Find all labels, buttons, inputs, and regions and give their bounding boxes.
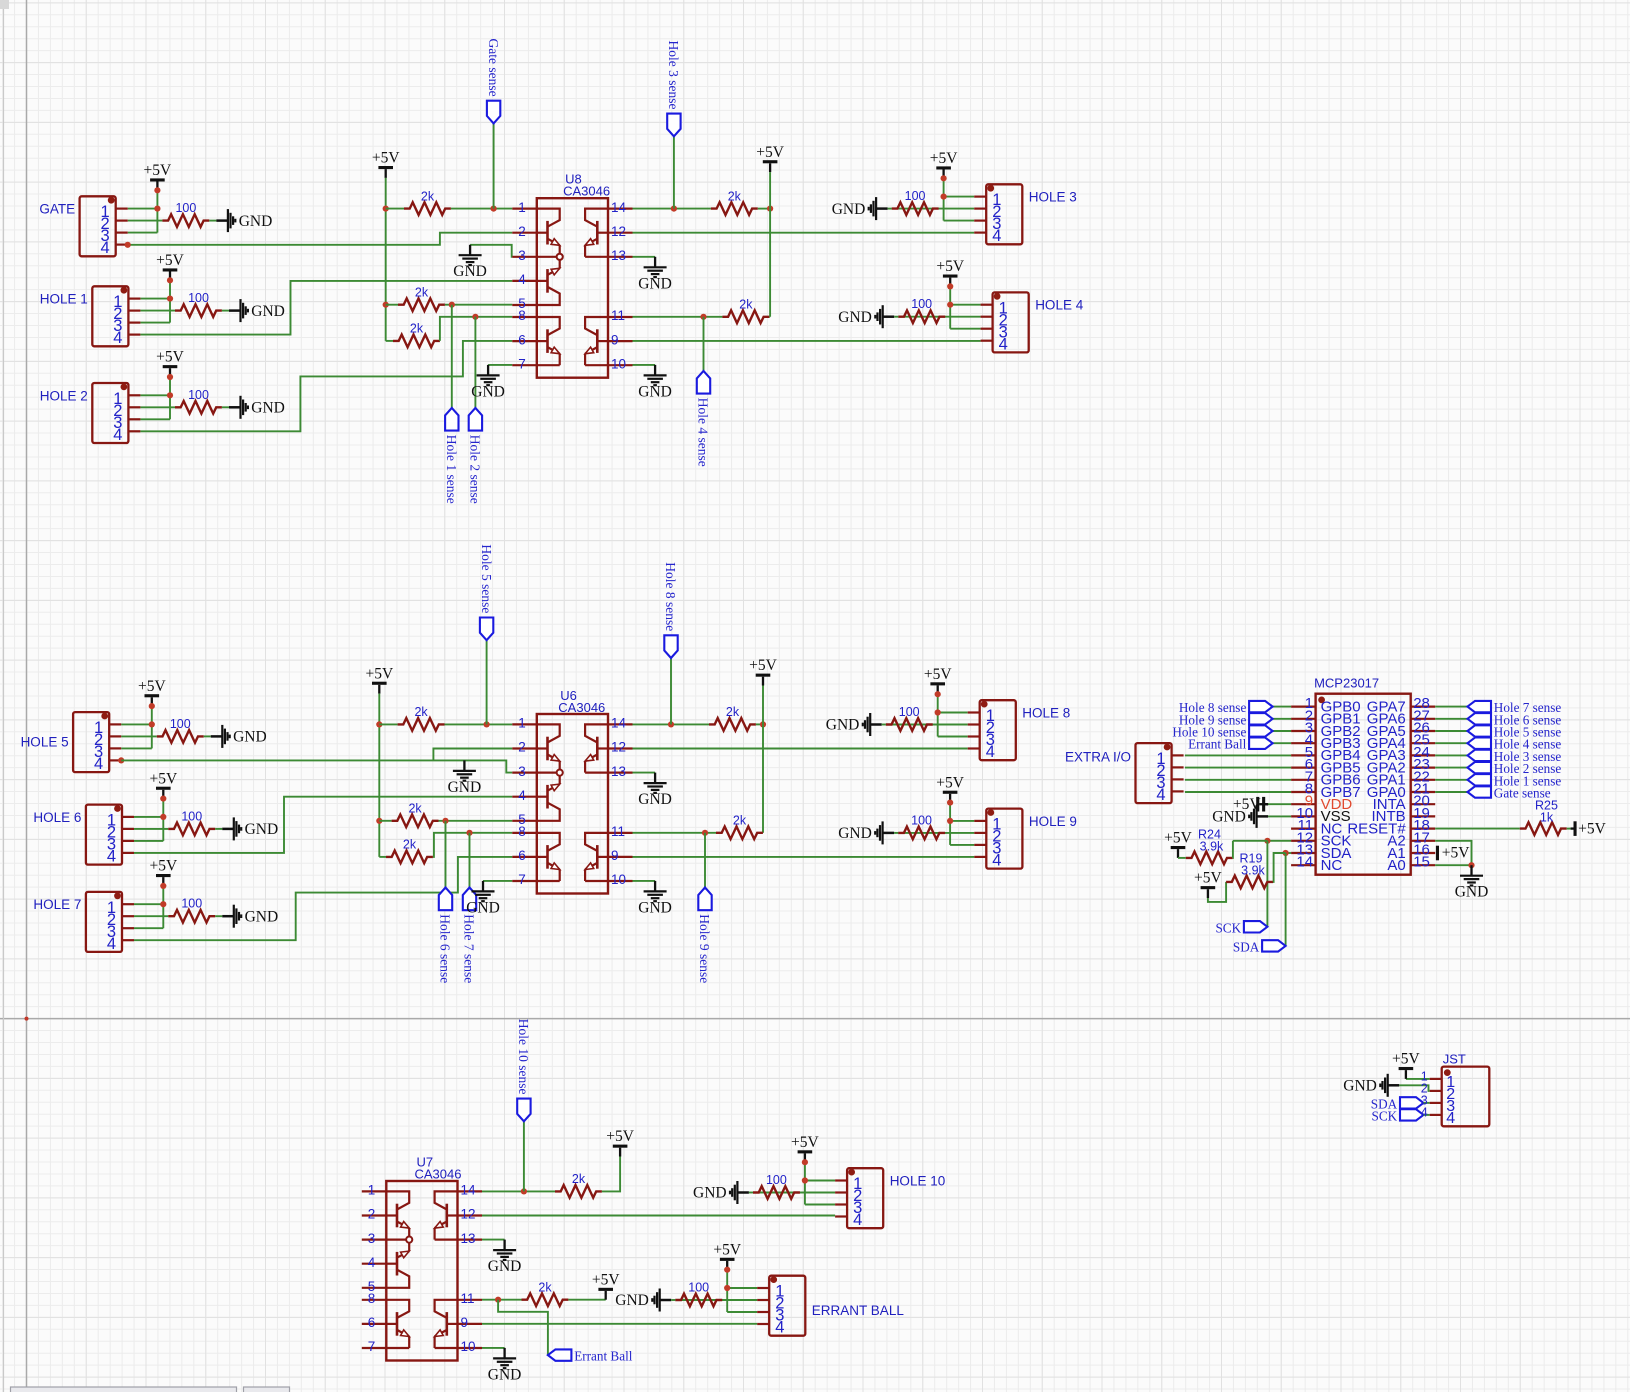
svg-text:SCK: SCK — [1372, 1108, 1398, 1123]
svg-text:GND: GND — [638, 899, 672, 916]
resistor 100 (HOLE 7) — [168, 910, 215, 923]
wire MCP pin 21 to net Gate sense — [1435, 791, 1467, 793]
svg-text:3: 3 — [518, 248, 526, 263]
svg-text:GND: GND — [245, 821, 279, 838]
junction dot +5V attach (HOLE 10) — [802, 1159, 808, 1165]
svg-text:GND: GND — [1212, 809, 1246, 826]
svg-text:GND: GND — [838, 309, 872, 326]
ground flag (JST pin2) — [1388, 1084, 1400, 1087]
U6 pin 7 — [512, 880, 537, 882]
connector HOLE 8 — [980, 700, 1016, 760]
U7 transistor Q4 (pins 14,12,13) — [445, 1204, 448, 1228]
wire MCP pin 23 to net Hole 2 sense — [1435, 767, 1467, 769]
wire R24 to SCK net — [1232, 841, 1234, 858]
svg-text:+5V: +5V — [1392, 1051, 1420, 1068]
junction dot Hole 7 sense — [466, 830, 472, 836]
MCP23017 pin 8 (GPB7) — [1291, 791, 1316, 793]
wire resistor to HOLE 10 pin2 — [753, 1192, 835, 1194]
junction dot pin1 (HOLE 8) — [935, 709, 941, 715]
sheet border vertical line — [26, 0, 28, 1392]
svg-text:GND: GND — [832, 201, 866, 218]
MCP23017 pin 5 (GPB4) — [1291, 754, 1316, 756]
svg-text:GND: GND — [233, 729, 267, 746]
wire 2k to U8 pin1 — [451, 208, 512, 210]
U8 pin 13 — [608, 256, 633, 258]
junction dot +5V right rail (U6) — [760, 721, 766, 727]
U8 pin 1 — [512, 208, 537, 210]
wire +5V right rail — [769, 172, 771, 209]
power flag +5V (U7 pin14) — [619, 1148, 621, 1157]
junction dot +5V attach (HOLE 8) — [935, 691, 941, 697]
U7 pin 3 — [362, 1238, 387, 1240]
ground flag (U6 pin7) — [482, 881, 484, 892]
ground flag (HOLE 6) — [222, 828, 234, 831]
U7 pin 4 — [362, 1263, 387, 1265]
connector EXTRA I/O — [1136, 743, 1172, 803]
wire resistor to GND (HOLE 1) — [222, 310, 229, 312]
svg-text:4: 4 — [113, 426, 122, 444]
svg-text:+5V: +5V — [791, 1134, 819, 1151]
svg-text:HOLE 6: HOLE 6 — [33, 810, 81, 825]
wire MCP pin 24 to net Hole 3 sense — [1435, 754, 1467, 756]
U7 transistor Q3 (pins 8,6,7) — [396, 1312, 399, 1336]
wire U8 pin10 to GND — [633, 364, 656, 366]
wire U7 pin13 to GND — [482, 1239, 505, 1241]
svg-text:2k: 2k — [408, 802, 422, 816]
junction dot Hole 5 sense — [484, 721, 490, 727]
svg-text:GND: GND — [826, 717, 860, 734]
resistor 2k (U6 pin11 pullup) — [716, 827, 763, 840]
svg-text:100: 100 — [170, 717, 191, 731]
wire net Hole 8 sense to MCP pin 1 — [1273, 706, 1292, 708]
U7 pin 7 — [362, 1347, 387, 1349]
svg-text:GATE: GATE — [39, 202, 75, 217]
U8 pin 2 — [512, 232, 537, 234]
net flag Hole 6 sense (GPA side) — [1468, 713, 1492, 724]
junction dot +5V attach (HOLE 1) — [167, 277, 173, 283]
wire net Hole 9 sense to MCP pin 2 — [1273, 718, 1292, 720]
U8 pin 11 — [608, 316, 633, 318]
MCP23017 pin 23 (GPA2) — [1411, 766, 1436, 768]
+5V net wire down to pin3 (HOLE 9) — [949, 803, 951, 845]
U6 pin 13 — [608, 771, 633, 773]
svg-text:4: 4 — [999, 335, 1008, 353]
junction dot rail/pin1 row — [376, 721, 382, 727]
MCP23017 pin 17 (A2) — [1411, 840, 1436, 842]
junction dot HOLE 5 pin4 stub — [118, 757, 124, 763]
svg-text:2: 2 — [518, 740, 526, 755]
svg-text:12: 12 — [611, 740, 626, 755]
junction dot rail/pin5 row — [376, 818, 382, 824]
U8 transistor Q2 (pins 5,4,3) — [546, 269, 549, 293]
svg-text:4: 4 — [775, 1319, 784, 1337]
net flag Hole 10 sense — [523, 1121, 525, 1191]
U8 pin 14 — [608, 208, 633, 210]
resistor R25 1k — [1520, 822, 1567, 835]
svg-text:+5V: +5V — [936, 258, 964, 275]
ground flag (U6 pin10) — [654, 881, 656, 892]
U6 pin 14 — [608, 723, 633, 725]
ground flag (U8 pin13) — [654, 257, 656, 268]
svg-text:A0: A0 — [1387, 857, 1405, 874]
resistor 100 (HOLE 4) — [898, 310, 945, 323]
power flag +5V (U8 right rail) — [769, 163, 771, 172]
svg-text:Hole 1 sense: Hole 1 sense — [444, 435, 459, 504]
wire HOLE 6 pin1 to +5V column — [134, 816, 163, 818]
wire resistor to GND (HOLE 7) — [215, 915, 222, 917]
MCP23017 pin 9 (VDD) — [1291, 803, 1316, 805]
svg-text:7: 7 — [518, 356, 526, 371]
wire 2k to +5V column — [758, 208, 770, 210]
net flag Gate sense — [493, 123, 495, 208]
resistor 2k (U8 pin11 pullup) — [722, 310, 769, 323]
junction dot +5V attach (HOLE 5) — [149, 703, 155, 709]
connector HOLE 9 — [986, 809, 1022, 869]
wire U7 pin11 to 2k — [482, 1299, 522, 1301]
svg-text:SCK: SCK — [1215, 920, 1241, 935]
wire 2k up to U6 pin8 — [433, 833, 512, 857]
connector HOLE 3 — [986, 184, 1022, 244]
IC U8 CA3046 body — [537, 198, 608, 378]
wire HOLE 7 pin3 — [134, 927, 163, 929]
JST pin 4 — [1430, 1114, 1442, 1116]
ground flag (A0/A2) — [1470, 865, 1472, 876]
MCP23017 pin 22 (GPA1) — [1411, 779, 1436, 781]
ground flag (U7 pin13) — [503, 1240, 505, 1251]
resistor 2k (U7 pin14 pullup) — [555, 1185, 602, 1198]
U6 transistor Q1 (pins 1,2,3) — [546, 737, 549, 761]
U8 pin 9 — [608, 340, 633, 342]
wire Errant Ball net down to flag — [498, 1300, 548, 1355]
junction dot +5V attach (HOLE 3) — [941, 175, 947, 181]
resistor 100 (HOLE 1) — [175, 304, 222, 317]
svg-text:3: 3 — [518, 764, 526, 779]
connector ERRANT BALL — [769, 1276, 805, 1336]
wire EXTRA I/O pin 1 to MCP pin 5 — [1185, 754, 1291, 756]
svg-text:+5V: +5V — [156, 252, 184, 269]
svg-text:100: 100 — [911, 297, 932, 311]
svg-text:4: 4 — [368, 1255, 376, 1270]
net flag Errant Ball — [548, 1349, 572, 1360]
ground flag (HOLE 2) — [229, 406, 241, 409]
power flag +5V (HOLE 9) — [949, 794, 951, 803]
+5V net wire down to pin3 — [162, 886, 164, 928]
connector HOLE 1 — [92, 286, 128, 346]
net flag SCK — [1244, 921, 1268, 932]
U6 pin 1 — [512, 723, 537, 725]
wire MCP pin 28 to net Hole 7 sense — [1435, 706, 1467, 708]
MCP23017 pin 26 (GPA5) — [1411, 730, 1436, 732]
junction dot +5V attach (HOLE 2) — [167, 374, 173, 380]
MCP23017 pin 28 (GPA7) — [1411, 705, 1436, 707]
svg-text:Hole 2 sense: Hole 2 sense — [468, 435, 483, 504]
connector HOLE 10 — [847, 1168, 883, 1228]
svg-text:4: 4 — [992, 852, 1001, 870]
wire SDA net down to flag — [1285, 853, 1287, 946]
+5V net wire down to pin3 (ERRANT BALL) — [726, 1270, 728, 1312]
U8 pin 6 — [512, 340, 537, 342]
net flag Hole 9 sense — [1249, 713, 1273, 724]
MCP23017 pin 25 (GPA4) — [1411, 742, 1436, 744]
net flag Hole 2 sense — [474, 317, 476, 408]
net flag SCK (JST) — [1400, 1109, 1424, 1120]
svg-text:2k: 2k — [733, 814, 747, 828]
wire resistor to HOLE 8 pin2 — [886, 724, 968, 726]
resistor 100 (HOLE 10) — [753, 1186, 800, 1199]
power flag +5V (HOLE 10) — [804, 1153, 806, 1162]
wire JST pin2 to GND — [1399, 1085, 1430, 1091]
power flag +5V (JST) — [1405, 1070, 1407, 1079]
wire ERRANT BALL pin1 to +5V column — [727, 1287, 757, 1289]
wire U6 pin2 to ground net — [433, 749, 512, 761]
svg-text:+5V: +5V — [149, 770, 177, 787]
wire HOLE 1 pin2 to resistor — [140, 310, 175, 312]
svg-text:HOLE 2: HOLE 2 — [40, 388, 88, 403]
svg-text:HOLE 1: HOLE 1 — [40, 292, 88, 307]
U6 pin 3 — [512, 771, 537, 773]
wire GND to MCP VSS — [1268, 815, 1291, 817]
wire MCP RESET# to R25 — [1435, 828, 1520, 830]
U6 pin 8 — [512, 832, 537, 834]
junction dot rail/pin1 row — [383, 206, 389, 212]
resistor R19 3.9k — [1226, 876, 1273, 889]
MCP23017 pin 18 (RESET#) — [1411, 827, 1436, 829]
junction dot Hole 2 sense — [472, 314, 478, 320]
svg-text:13: 13 — [611, 248, 626, 263]
svg-text:GND: GND — [245, 908, 279, 925]
wire U6 pin10 to GND — [633, 880, 656, 882]
+5V net wire down to pin3 — [151, 706, 153, 748]
svg-text:+5V: +5V — [713, 1241, 741, 1258]
wire resistor to GND (HOLE 5) — [204, 735, 211, 737]
power flag +5V (U6 pullup rail) — [378, 685, 380, 694]
svg-text:12: 12 — [611, 224, 626, 239]
svg-text:9: 9 — [611, 332, 619, 347]
wire resistor to GND (GATE) — [209, 220, 216, 222]
wire +5V to MCP VDD — [1259, 803, 1291, 805]
net flag Hole 8 sense — [670, 658, 672, 724]
svg-text:HOLE 4: HOLE 4 — [1035, 298, 1084, 313]
svg-text:+5V: +5V — [1194, 870, 1222, 887]
svg-text:2k: 2k — [739, 297, 753, 311]
U8 shared-emitter node circle (pin 3) — [557, 254, 563, 260]
svg-text:100: 100 — [181, 809, 202, 823]
wire MCP pin 25 to net Hole 4 sense — [1435, 742, 1467, 744]
U8 pin 12 — [608, 232, 633, 234]
U7 shared-emitter node circle (pin 3) — [406, 1237, 412, 1243]
U7 transistor Q5 (pins 11,9,10) — [445, 1312, 448, 1336]
resistor 2k (U8 pin8 pullup) — [386, 340, 393, 342]
resistor 100 (ERRANT BALL) — [675, 1294, 722, 1307]
junction dot +5V attach (HOLE 7) — [160, 883, 166, 889]
ground flag (HOLE 8) — [870, 723, 882, 726]
junction dot +5V attach (ERRANT BALL) — [724, 1267, 730, 1273]
wire U6 pin11 to 2k — [633, 832, 717, 834]
wire resistor to HOLE 3 pin2 — [892, 208, 975, 210]
resistor 2k (U6 pin5 pullup) — [379, 820, 391, 822]
svg-text:3: 3 — [368, 1231, 376, 1246]
U7 pin 14 — [458, 1190, 483, 1192]
svg-text:100: 100 — [175, 201, 196, 215]
svg-text:100: 100 — [911, 813, 932, 827]
svg-text:100: 100 — [188, 388, 209, 402]
wire U6 pin13 to GND — [633, 772, 656, 774]
+5V net wire down to pin3 (HOLE 8) — [937, 694, 939, 736]
svg-text:GND: GND — [838, 825, 872, 842]
svg-text:2k: 2k — [572, 1172, 586, 1186]
bottom scrollbar track — [11, 1387, 237, 1392]
svg-text:+5V: +5V — [592, 1271, 620, 1288]
wire GATE pin4 to U8 pin2 — [128, 233, 513, 245]
wire MCP A2 to GND net — [1435, 841, 1471, 865]
net flag Hole 2 sense (GPA side) — [1468, 762, 1492, 773]
svg-text:100: 100 — [899, 705, 920, 719]
wire U8 pin9 to HOLE 4 pin4 — [633, 340, 981, 342]
MCP23017 pin 1 (GPB0) — [1291, 705, 1316, 707]
resistor R24 3.9k — [1178, 857, 1186, 859]
wire HOLE 8 pin1 to +5V column — [938, 712, 968, 714]
junction dot Hole 8 sense — [668, 721, 674, 727]
net flag Hole 8 sense — [1249, 701, 1273, 712]
ground flag (HOLE 1) — [229, 309, 241, 312]
svg-text:HOLE 9: HOLE 9 — [1029, 814, 1077, 829]
net flag Hole 4 sense — [703, 317, 705, 371]
MCP23017 pin 2 (GPB1) — [1291, 718, 1316, 720]
net flag Hole 1 sense — [451, 305, 453, 408]
svg-text:1: 1 — [518, 200, 526, 215]
svg-text:9: 9 — [461, 1315, 469, 1330]
wire HOLE 4 pin3 — [950, 328, 980, 330]
ground flag (ERRANT BALL) — [660, 1299, 672, 1302]
svg-text:+5V: +5V — [1164, 830, 1192, 847]
U7 pin 9 — [458, 1323, 483, 1325]
svg-text:SDA: SDA — [1233, 939, 1260, 954]
net flag Hole 6 sense — [445, 821, 447, 888]
wire HOLE 3 pin3 — [944, 220, 975, 222]
MCP23017 pin 4 (GPB3) — [1291, 742, 1316, 744]
wire HOLE 2 pin2 to resistor — [140, 406, 175, 408]
svg-text:+5V: +5V — [365, 665, 393, 682]
wire 2k to U8 pin5 — [445, 304, 512, 306]
U8 transistor Q5 (pins 11,9,10) — [596, 329, 599, 353]
wire U6 pin9 to HOLE 9 pin4 — [633, 856, 975, 858]
ground flag (HOLE 4) — [883, 315, 895, 318]
MCP23017 pin 16 (A1) — [1411, 852, 1436, 854]
wire +5V rail down to pin6 row — [378, 694, 380, 857]
power flag +5V (HOLE 6) — [162, 790, 164, 799]
svg-text:Hole 6 sense: Hole 6 sense — [438, 914, 453, 983]
wire HOLE 10 pin3 — [805, 1204, 835, 1206]
svg-text:CA3046: CA3046 — [563, 183, 610, 198]
MCP23017 pin 21 (GPA0) — [1411, 791, 1436, 793]
wire U7 pin9 to ERRANT BALL pin4 — [482, 1323, 757, 1325]
power flag +5V (VDD) — [1265, 803, 1268, 805]
net flag SDA — [1262, 940, 1286, 951]
svg-text:100: 100 — [766, 1173, 787, 1187]
+5V net wire down to pin3 (HOLE 3) — [943, 178, 945, 220]
junction dot pin1 (HOLE 2) — [167, 392, 173, 398]
wire U8 pin13 to GND — [633, 256, 656, 258]
JST pin 1 — [1430, 1078, 1442, 1080]
wire U8 pin14 to 2k — [633, 208, 711, 210]
wire HOLE 5 pin4 to U6 pin3 and GND — [121, 760, 512, 772]
wire MCP pin 27 to net Hole 6 sense — [1435, 718, 1467, 720]
wire HOLE 7 pin4 to U6 pin6 — [134, 857, 512, 940]
U6 pin 10 — [608, 880, 633, 882]
resistor 2k (U6 pin8 pullup) — [379, 856, 386, 858]
svg-text:GND: GND — [1455, 884, 1489, 901]
wire HOLE 2 pin4 to U8 pin6 — [140, 341, 512, 431]
wire HOLE 8 pin3 — [938, 736, 968, 738]
svg-text:1: 1 — [368, 1183, 376, 1198]
svg-text:100: 100 — [905, 189, 926, 203]
wire U8 pin7 to GND — [488, 364, 512, 366]
svg-text:6: 6 — [518, 848, 526, 863]
net flag Hole 1 sense (GPA side) — [1468, 774, 1492, 785]
wire resistor to GND (HOLE 2) — [222, 406, 229, 408]
U8 pin 3 — [512, 256, 537, 258]
power flag +5V (U6 right rail) — [762, 677, 764, 686]
svg-text:2k: 2k — [415, 285, 429, 299]
U8 transistor Q1 (pins 1,2,3) — [546, 221, 549, 245]
svg-text:Hole 10 sense: Hole 10 sense — [516, 1019, 531, 1095]
wire MCP pin 26 to net Hole 5 sense — [1435, 730, 1467, 732]
ground flag (GATE) — [216, 219, 228, 222]
junction dot +5V attach (HOLE 6) — [160, 796, 166, 802]
wire HOLE 9 pin3 — [950, 844, 974, 846]
wire resistor to HOLE 9 pin2 — [898, 832, 974, 834]
wire HOLE 5 pin2 to resistor — [121, 735, 157, 737]
junction dot +5V attach (GATE) — [154, 187, 160, 193]
wire resistor to GND (HOLE 6) — [215, 828, 222, 830]
svg-text:8: 8 — [518, 308, 526, 323]
connector HOLE 6 — [86, 805, 122, 865]
ground flag (HOLE 9) — [883, 832, 895, 835]
U7 pin 2 — [362, 1214, 387, 1216]
svg-text:11: 11 — [461, 1291, 475, 1306]
connector HOLE 7 — [86, 892, 122, 952]
wire HOLE 6 pin4 to U6 pin4 — [134, 797, 512, 853]
svg-text:GND: GND — [466, 899, 500, 916]
U7 pin 10 — [458, 1347, 483, 1349]
junction dot pin1 (HOLE 4) — [947, 302, 953, 308]
U7 pin 13 — [458, 1238, 483, 1240]
power flag +5V (HOLE 4) — [949, 278, 951, 287]
wire GATE pin2 to resistor — [128, 220, 163, 222]
junction dot +5V attach (HOLE 4) — [947, 283, 953, 289]
svg-text:4: 4 — [107, 848, 116, 866]
svg-text:Errant Ball: Errant Ball — [574, 1349, 633, 1364]
svg-text:Hole 7 sense: Hole 7 sense — [462, 914, 477, 983]
svg-text:6: 6 — [518, 332, 526, 347]
power flag +5V (HOLE 8) — [937, 685, 939, 694]
U7 pin 6 — [362, 1323, 387, 1325]
svg-text:MCP23017: MCP23017 — [1314, 676, 1379, 691]
wire HOLE 1 pin4 to U8 pin4 — [140, 281, 512, 335]
svg-text:GND: GND — [471, 383, 505, 400]
svg-text:100: 100 — [688, 1281, 709, 1295]
svg-text:+5V: +5V — [936, 774, 964, 791]
svg-text:2: 2 — [368, 1207, 376, 1222]
svg-text:13: 13 — [461, 1231, 476, 1246]
junction dot pin1 (HOLE 3) — [941, 194, 947, 200]
net flag Hole 7 sense — [469, 833, 471, 888]
wire 2k to +5V — [602, 1157, 620, 1192]
svg-text:+5V: +5V — [930, 150, 958, 167]
junction dot Hole 4 sense — [700, 314, 706, 320]
svg-text:4: 4 — [94, 755, 103, 773]
wire EXTRA I/O pin 4 to MCP pin 8 — [1185, 791, 1291, 793]
